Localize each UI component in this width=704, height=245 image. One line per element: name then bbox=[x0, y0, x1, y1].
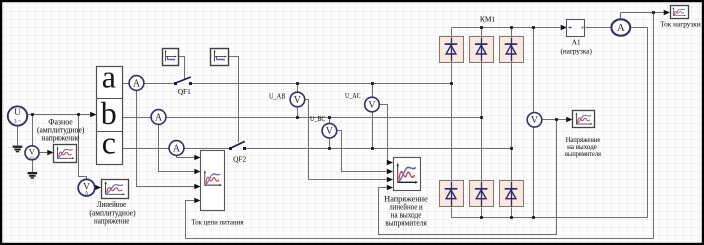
svg-text:a: a bbox=[102, 59, 116, 95]
svg-text:Ток цепи питания: Ток цепи питания bbox=[192, 218, 244, 227]
svg-text:A: A bbox=[133, 78, 141, 89]
svg-text:V: V bbox=[326, 126, 334, 137]
svg-text:3 ~: 3 ~ bbox=[14, 119, 23, 125]
svg-text:A: A bbox=[617, 22, 625, 34]
svg-text:U_AB: U_AB bbox=[269, 94, 286, 101]
svg-text:V: V bbox=[531, 115, 539, 126]
svg-text:Ток нагрузки: Ток нагрузки bbox=[660, 20, 701, 29]
svg-text:A: A bbox=[155, 112, 163, 123]
svg-text:V: V bbox=[368, 100, 376, 111]
svg-text:напряжение: напряжение bbox=[42, 133, 80, 142]
svg-text:Δ: Δ bbox=[85, 192, 88, 197]
svg-text:выпрямителя: выпрямителя bbox=[385, 219, 427, 228]
svg-text:(нагрузка): (нагрузка) bbox=[561, 47, 593, 55]
svg-text:U_AC: U_AC bbox=[345, 93, 361, 100]
svg-text:QF2: QF2 bbox=[233, 154, 246, 163]
svg-text:U: U bbox=[14, 108, 21, 118]
svg-text:выпрямителя: выпрямителя bbox=[565, 150, 602, 158]
svg-text:QF1: QF1 bbox=[178, 87, 191, 96]
svg-text:КМ1: КМ1 bbox=[480, 15, 496, 24]
svg-text:А1: А1 bbox=[572, 39, 581, 47]
svg-text:c: c bbox=[102, 125, 116, 161]
svg-text:V: V bbox=[294, 95, 302, 106]
svg-text:U_BC: U_BC bbox=[310, 116, 326, 123]
svg-text:напряжение: напряжение bbox=[94, 217, 130, 226]
svg-text:A: A bbox=[173, 143, 181, 154]
